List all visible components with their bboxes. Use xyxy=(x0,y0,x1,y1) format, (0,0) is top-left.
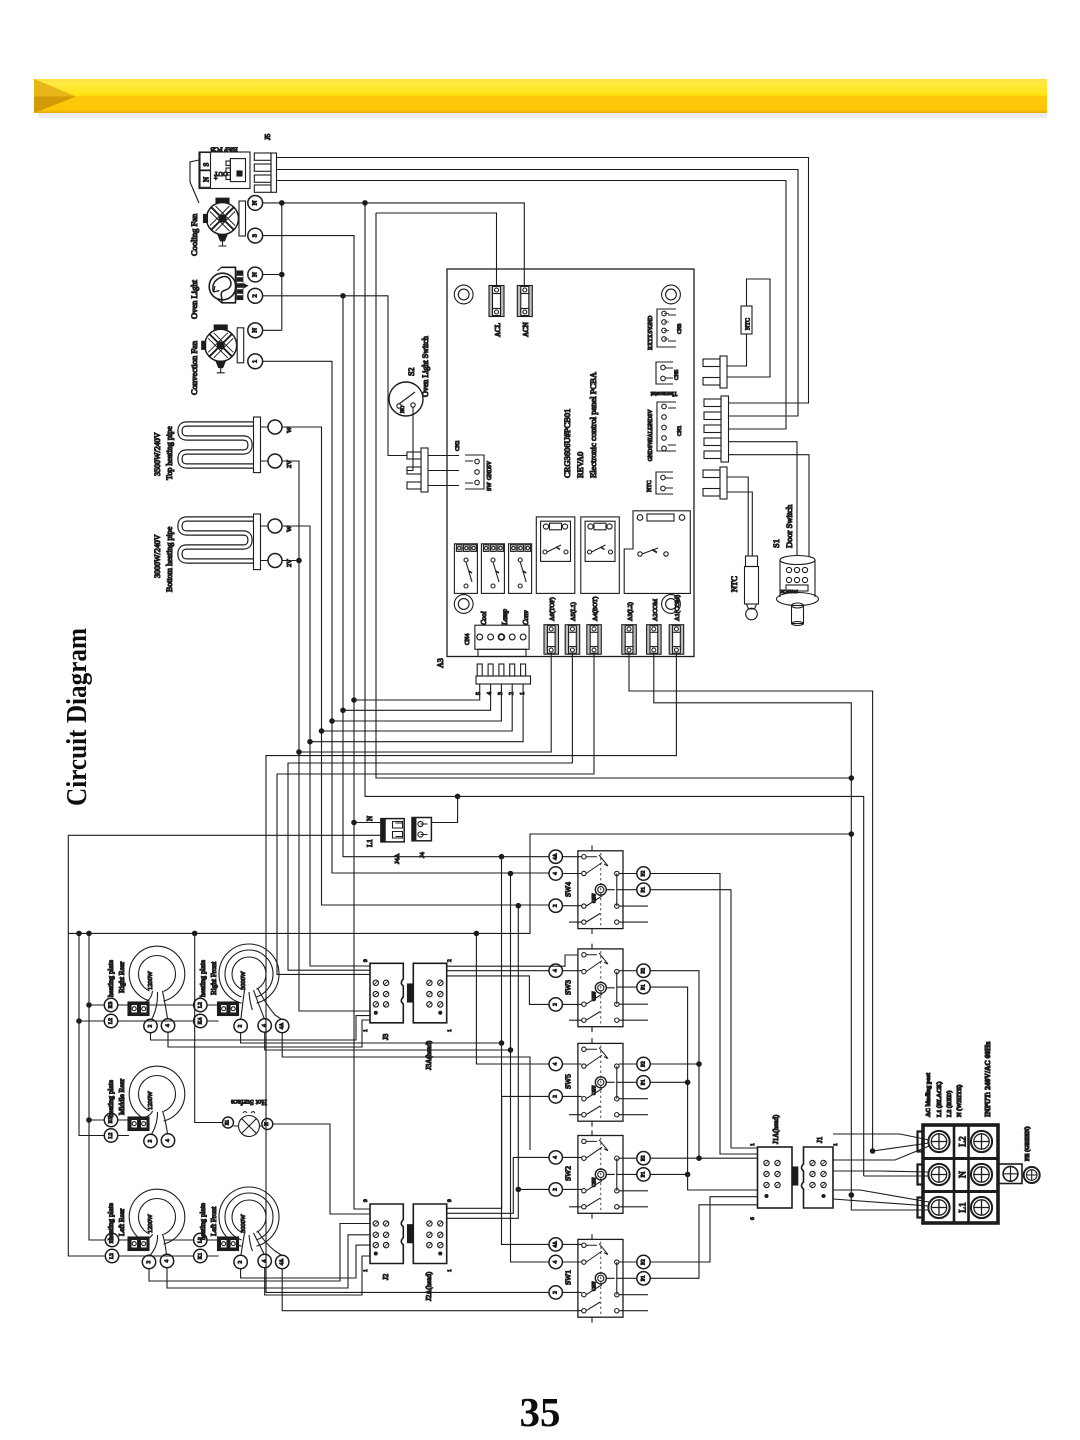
svg-text:N: N xyxy=(252,200,259,205)
svg-text:1200W: 1200W xyxy=(147,970,154,990)
terminal L2 LR xyxy=(105,1249,118,1262)
connector CN2 xyxy=(465,455,484,489)
wire L bus to ACL xyxy=(376,213,497,286)
wires J1 to L2 post xyxy=(833,1134,929,1160)
wire CN1 plug to door switch xyxy=(729,442,798,556)
svg-text:1: 1 xyxy=(252,360,259,363)
svg-text:Oven Light: Oven Light xyxy=(189,279,199,319)
connector CN6 NTC xyxy=(656,472,673,494)
svg-text:P1: P1 xyxy=(641,1275,647,1281)
svg-text:L1 (BLACK): L1 (BLACK) xyxy=(936,1081,943,1117)
svg-text:Left Front: Left Front xyxy=(210,1207,218,1236)
svg-text:P1: P1 xyxy=(641,887,647,893)
svg-text:3: 3 xyxy=(252,234,259,237)
wire LF 2 to J2 xyxy=(241,1245,370,1278)
wire L bus xyxy=(376,213,851,778)
S2 plug xyxy=(407,448,428,492)
switch SW5 xyxy=(569,1038,648,1127)
door switch S1 xyxy=(777,556,819,626)
wire fuse A4 to J3 xyxy=(277,654,594,974)
svg-text:A6(TOP): A6(TOP) xyxy=(549,597,556,621)
junction xyxy=(76,1018,82,1024)
svg-text:ACN: ACN xyxy=(522,322,530,337)
svg-text:J1A(head): J1A(head) xyxy=(772,1114,780,1144)
wire J4 up to bus xyxy=(431,796,457,822)
wire fuse A3 to L2 post xyxy=(629,654,873,1151)
svg-text:9: 9 xyxy=(363,959,369,962)
svg-text:L2: L2 xyxy=(108,1018,114,1024)
wire SW1 P2 to J1A xyxy=(650,1197,757,1262)
wire lamp right to J2 xyxy=(273,1124,370,1214)
svg-text:4: 4 xyxy=(262,1259,268,1262)
wire MR K5 row xyxy=(89,1005,219,1256)
wire RR 2 to J3 xyxy=(151,1016,371,1040)
switch SW3 xyxy=(569,944,648,1033)
CN1 plug xyxy=(704,396,729,462)
relay K6 large xyxy=(624,511,690,594)
wire SW1 stubs xyxy=(562,1244,636,1292)
terminal N (cooling fan) xyxy=(248,196,263,211)
terminal block LF xyxy=(218,1237,239,1251)
connector CN5 thermostat xyxy=(656,362,673,384)
junction xyxy=(192,931,198,937)
wire SW2 stubs xyxy=(562,1157,636,1189)
terminal N lamp xyxy=(262,1119,273,1130)
wire N branch to lights xyxy=(263,203,282,330)
wire SW5 4 feed xyxy=(476,933,549,1064)
terminal 1 (convection fan) xyxy=(248,354,263,369)
wires S2 plug to CN2 xyxy=(428,456,459,486)
junction xyxy=(849,775,855,781)
terminal P2 SW5 xyxy=(637,1057,650,1070)
schematic drawn in portrait coordinates; texts rotated individually xyxy=(68,133,1039,1322)
wire NTC plug to probe xyxy=(727,477,752,556)
junction xyxy=(516,903,522,909)
junction xyxy=(279,272,285,278)
relay K5 medium xyxy=(581,517,620,594)
wire SW3 stubs xyxy=(562,971,636,1005)
junction xyxy=(296,749,302,755)
junction xyxy=(86,1002,92,1008)
svg-text:J3A(head): J3A(head) xyxy=(425,1040,433,1070)
wire SW5 2 to J2A xyxy=(447,1096,549,1208)
NTC thermostat loop xyxy=(727,279,770,377)
terminal 2 SW4 xyxy=(549,899,562,912)
terminal 2 RR xyxy=(144,1019,157,1032)
terminal V (top heater) xyxy=(268,454,282,468)
heating plate Left Front 3000W xyxy=(219,1187,282,1256)
terminal 3 (cooling fan) xyxy=(248,228,263,243)
svg-text:L2 (RED): L2 (RED) xyxy=(946,1091,953,1117)
terminal N (oven light) xyxy=(248,267,263,282)
wire CN4 pin3 to conv bus xyxy=(332,684,501,721)
wire SW5 P1 xyxy=(650,1081,687,1083)
svg-text:S: S xyxy=(203,162,211,166)
junction xyxy=(499,1040,505,1046)
svg-text:1: 1 xyxy=(363,1269,369,1272)
wire SW4 stubs xyxy=(562,857,636,906)
terminal K4 RF xyxy=(194,1014,207,1027)
AC binding post terminal block xyxy=(918,1125,999,1223)
wire K bus xyxy=(89,933,105,1240)
svg-text:K1: K1 xyxy=(197,1252,203,1259)
svg-text:P2: P2 xyxy=(641,1155,647,1161)
svg-text:4: 4 xyxy=(164,1259,170,1262)
connector J2A head xyxy=(408,1204,447,1264)
oven light LP1 xyxy=(209,267,248,303)
wire RF 4 to SW1 4 xyxy=(265,1032,549,1262)
junction xyxy=(351,820,357,826)
wire neutral down to N terminal xyxy=(365,203,864,1176)
svg-text:Hot Surface: Hot Surface xyxy=(230,1098,267,1107)
svg-text:1: 1 xyxy=(447,1029,453,1032)
svg-text:SW2: SW2 xyxy=(564,1166,573,1181)
terminal N (convection fan) xyxy=(248,323,263,338)
svg-text:9: 9 xyxy=(363,1199,369,1202)
svg-text:Door Switch: Door Switch xyxy=(784,504,794,548)
wire SW1 P1 to J1A xyxy=(650,1205,757,1279)
svg-text:1: 1 xyxy=(833,1143,839,1146)
wire top heater W xyxy=(282,427,549,905)
wire SW5 stubs xyxy=(562,1064,636,1096)
terminal 2 LF xyxy=(234,1255,247,1268)
svg-text:PE (GREEN): PE (GREEN) xyxy=(1024,1126,1031,1161)
svg-text:2: 2 xyxy=(447,959,453,962)
hot surface indicator lamp xyxy=(239,1112,260,1137)
svg-text:9: 9 xyxy=(447,1199,453,1202)
connector J4A xyxy=(381,819,404,842)
svg-text:CN1: CN1 xyxy=(677,425,683,436)
terminal P1 SW5 xyxy=(637,1076,650,1089)
svg-text:N: N xyxy=(203,177,211,182)
fuse ACN xyxy=(517,286,532,317)
junction xyxy=(508,1047,514,1053)
connector CN1 xyxy=(657,402,676,451)
fuse A4(BOT) xyxy=(587,625,602,655)
connector J3 xyxy=(370,963,403,1023)
terminal 4A LF xyxy=(276,1255,289,1268)
svg-text:GND: GND xyxy=(648,316,654,329)
wire bus 933 xyxy=(68,834,851,933)
svg-text:J3: J3 xyxy=(382,1033,390,1040)
svg-text:NTC: NTC xyxy=(746,318,752,330)
svg-text:4: 4 xyxy=(553,1062,559,1065)
NTC probe xyxy=(745,556,759,620)
wire SW3 P1 chain xyxy=(650,987,757,1190)
svg-text:A1(COM): A1(COM) xyxy=(674,595,681,621)
wire S2 to plug xyxy=(407,407,413,471)
svg-text:NTC: NTC xyxy=(730,576,739,592)
terminal 4A RF xyxy=(276,1019,289,1032)
svg-text:TX: TX xyxy=(648,333,654,342)
svg-text:J2: J2 xyxy=(382,1273,390,1280)
svg-text:4A: 4A xyxy=(553,1241,559,1248)
svg-text:Conv: Conv xyxy=(522,609,530,625)
terminal block RR xyxy=(128,1002,149,1016)
svg-text:K3: K3 xyxy=(108,1001,114,1008)
svg-text:2: 2 xyxy=(553,1188,559,1191)
svg-text:P1: P1 xyxy=(641,1171,647,1177)
wire fuse A5 to J3 xyxy=(288,654,572,970)
svg-text:5V: 5V xyxy=(487,460,493,468)
wire H&F to fan xyxy=(190,160,199,203)
terminal P2 SW1 xyxy=(637,1255,650,1268)
svg-text:SW5: SW5 xyxy=(564,1074,573,1089)
junction xyxy=(696,1061,702,1067)
terminal L2 xyxy=(104,1014,117,1027)
svg-text:H&F PCB: H&F PCB xyxy=(210,146,238,153)
svg-text:2: 2 xyxy=(238,1024,244,1027)
wire CN4 pin5 to J4A N xyxy=(354,684,480,823)
wire CN4 pin4 to SW4 4A xyxy=(343,684,549,857)
svg-text:2: 2 xyxy=(148,1139,154,1142)
svg-text:4: 4 xyxy=(262,1024,268,1027)
junction xyxy=(76,931,82,937)
svg-text:K4: K4 xyxy=(197,1017,203,1024)
wire LR 2 to J2 xyxy=(149,1224,370,1282)
wire RR L2 row xyxy=(79,1020,194,1022)
wire conv 1 down xyxy=(263,361,549,873)
wire SW4 P1 to J1A xyxy=(650,890,757,1148)
wire J5-3 to CN1 plug xyxy=(277,181,787,430)
junction xyxy=(508,871,514,877)
terminal 4 SW4 xyxy=(549,867,562,880)
wire RR K3 row xyxy=(89,1004,194,1006)
svg-text:OFF: OFF xyxy=(592,893,598,903)
terminal P1 SW2 xyxy=(637,1168,650,1181)
svg-text:4: 4 xyxy=(553,1156,559,1159)
svg-text:6: 6 xyxy=(750,1217,756,1220)
svg-text:L1: L1 xyxy=(959,1202,969,1213)
wire CN4 pin1 to heater bus xyxy=(310,684,523,742)
svg-text:N: N xyxy=(252,272,259,277)
svg-text:P1: P1 xyxy=(641,984,647,990)
terminal K2 xyxy=(105,1233,118,1246)
svg-text:HALL: HALL xyxy=(648,426,654,442)
connector J5 xyxy=(254,133,276,192)
svg-text:E1: E1 xyxy=(226,1119,231,1125)
svg-text:N: N xyxy=(252,328,259,333)
svg-text:P2: P2 xyxy=(641,1259,647,1265)
wire J3A to SW3 4 xyxy=(447,970,549,972)
svg-text:1: 1 xyxy=(750,1143,756,1146)
svg-text:N: N xyxy=(265,1122,270,1126)
terminal 4 SW2 xyxy=(549,1151,562,1164)
svg-text:L2: L2 xyxy=(197,1002,203,1008)
fuse A1(COM) xyxy=(669,625,684,655)
svg-text:A4(BOT): A4(BOT) xyxy=(592,597,599,621)
svg-text:L2: L2 xyxy=(959,1136,969,1147)
svg-text:heating plate: heating plate xyxy=(107,1080,115,1117)
terminal 4A SW1 xyxy=(549,1238,562,1251)
svg-text:Circuit Diagram: Circuit Diagram xyxy=(61,628,93,806)
connector J1 xyxy=(802,1147,834,1208)
wires J1 to L1 post xyxy=(833,1190,929,1210)
wire SW2 P2 xyxy=(650,1157,699,1159)
svg-text:K2: K2 xyxy=(109,1236,115,1243)
fuse A6(TOP) xyxy=(544,625,559,655)
svg-text:RX: RX xyxy=(648,341,654,350)
terminal P1 SW1 xyxy=(637,1272,650,1285)
wire CN1 plug to door switch 2 xyxy=(729,455,810,556)
screw L2 right xyxy=(971,1131,992,1152)
junction xyxy=(319,728,325,734)
terminal 2 SW1 xyxy=(549,1286,562,1299)
svg-text:SW: SW xyxy=(487,482,493,491)
svg-text:P2: P2 xyxy=(641,1061,647,1067)
svg-text:35: 35 xyxy=(520,1389,561,1435)
terminal L2 MR xyxy=(104,1129,117,1142)
relay K2 small xyxy=(481,544,504,594)
svg-text:L2: L2 xyxy=(197,1237,203,1243)
heating plate Middle Rear 1200W xyxy=(129,1066,185,1134)
junction xyxy=(685,1080,691,1086)
junction xyxy=(351,697,357,703)
svg-text:Left Rear: Left Rear xyxy=(118,1208,126,1236)
wire CN4 pin2 to heater bus xyxy=(322,684,513,731)
svg-text:2: 2 xyxy=(146,1260,152,1263)
terminal 2 SW2 xyxy=(549,1183,562,1196)
wire SW5 P2 xyxy=(650,1063,699,1065)
svg-text:5V: 5V xyxy=(648,326,654,334)
wire J5-1 to CN1 plug xyxy=(277,158,809,404)
terminal K3 xyxy=(104,998,117,1011)
convection fan M2 xyxy=(202,325,244,373)
terminal 4 LF xyxy=(258,1254,271,1267)
wire LR L2 row xyxy=(119,1255,194,1257)
svg-text:4: 4 xyxy=(487,692,493,695)
svg-text:Thermostat: Thermostat xyxy=(650,390,677,396)
connector J3A head xyxy=(408,963,447,1023)
svg-text:CN4: CN4 xyxy=(465,634,471,645)
svg-text:2: 2 xyxy=(553,1291,559,1294)
svg-text:3500W/240V: 3500W/240V xyxy=(153,432,162,476)
svg-text:NO: NO xyxy=(401,405,406,413)
svg-text:Middle Rear: Middle Rear xyxy=(118,1078,126,1115)
connector CN4 xyxy=(475,625,529,656)
terminal 4 SW3 xyxy=(549,964,562,977)
wire LR K2 row xyxy=(119,1239,194,1241)
wire riser 501 xyxy=(501,857,503,1043)
svg-text:1200W: 1200W xyxy=(147,1213,154,1233)
wire SW2 2 to J2A xyxy=(447,1189,549,1218)
svg-text:1200W: 1200W xyxy=(147,1090,154,1110)
screw L1 left xyxy=(928,1197,949,1218)
junction xyxy=(296,558,302,564)
junction xyxy=(86,931,92,937)
CN4 mating plug xyxy=(476,664,531,695)
svg-text:A3: A3 xyxy=(436,658,445,668)
mounting hole xyxy=(454,595,473,614)
junction xyxy=(307,739,313,745)
svg-text:4A: 4A xyxy=(279,1259,285,1266)
svg-text:S2: S2 xyxy=(407,368,416,376)
wire RF 2 to SW1 4A xyxy=(241,1033,549,1245)
NTC plug xyxy=(703,467,727,499)
wire SW4 P2 to J1A xyxy=(650,874,757,1155)
svg-text:4A: 4A xyxy=(553,853,559,860)
svg-text:OFF: OFF xyxy=(592,1085,598,1095)
svg-text:4: 4 xyxy=(165,1139,171,1142)
PCB A3 electronic control panel PCBA xyxy=(447,269,694,657)
terminal K5 xyxy=(104,1113,117,1126)
svg-text:OFF: OFF xyxy=(592,1281,598,1291)
mounting hole xyxy=(662,595,681,614)
svg-text:CRG3606U#PCB01: CRG3606U#PCB01 xyxy=(562,409,572,478)
fuse ACL xyxy=(489,286,504,317)
terminal P2 SW3 xyxy=(637,964,650,977)
terminal 2 SW3 xyxy=(549,998,562,1011)
terminal 2 LR xyxy=(142,1255,155,1268)
svg-text:ACL: ACL xyxy=(494,323,502,337)
mounting hole xyxy=(662,285,681,304)
svg-text:4: 4 xyxy=(553,872,559,875)
terminal P2 SW2 xyxy=(637,1152,650,1165)
svg-text:heating plate: heating plate xyxy=(107,960,115,997)
wire RR 4 to J3 xyxy=(168,1020,370,1047)
wire riser 518 xyxy=(517,906,519,1190)
svg-text:P1: P1 xyxy=(641,1079,647,1085)
junction xyxy=(849,831,855,837)
heating plate Left Rear 1200W xyxy=(129,1189,185,1255)
svg-text:3000W/240V: 3000W/240V xyxy=(153,534,162,578)
svg-text:5V: 5V xyxy=(648,409,654,417)
relay K4 medium xyxy=(536,517,575,594)
PE earth tab xyxy=(998,1164,1040,1184)
oven light switch S2 xyxy=(389,382,423,416)
wire bottom heater W xyxy=(282,526,370,966)
heater top 3500W xyxy=(180,417,268,473)
junction xyxy=(849,1192,855,1198)
svg-text:J4A: J4A xyxy=(394,853,401,864)
svg-text:Lamp: Lamp xyxy=(501,609,509,626)
svg-text:P2: P2 xyxy=(641,968,647,974)
junction xyxy=(870,1148,876,1154)
svg-text:2: 2 xyxy=(148,1024,154,1027)
terminal 4 RF xyxy=(258,1019,271,1032)
terminal P1 SW3 xyxy=(637,980,650,993)
svg-text:Oven Light Switch: Oven Light Switch xyxy=(421,336,430,397)
svg-text:4A: 4A xyxy=(279,1023,285,1030)
svg-text:Electronic control panel PCBA: Electronic control panel PCBA xyxy=(588,371,598,478)
svg-text:1: 1 xyxy=(447,1269,453,1272)
junction xyxy=(340,708,346,714)
svg-text:4: 4 xyxy=(553,969,559,972)
svg-text:SW4: SW4 xyxy=(564,882,573,897)
screw L1 right xyxy=(971,1197,992,1218)
terminal L2 LF xyxy=(194,1233,207,1246)
heater bottom 3000W xyxy=(180,514,268,570)
connector J1A head xyxy=(758,1147,798,1208)
svg-text:+ -: + - xyxy=(214,173,220,180)
junction xyxy=(362,200,368,206)
wire light 2 to S2 xyxy=(263,296,407,456)
terminal 4A SW4 xyxy=(549,850,562,863)
junction xyxy=(279,200,285,206)
wire SW3 P2 chain xyxy=(650,971,757,1158)
connector J2 xyxy=(370,1204,403,1264)
svg-text:4: 4 xyxy=(553,1260,559,1263)
svg-text:NTC: NTC xyxy=(647,480,653,492)
svg-text:SW1: SW1 xyxy=(564,1270,573,1285)
wires J1 to N post xyxy=(833,1171,929,1176)
screw N right xyxy=(971,1164,992,1185)
svg-text:2: 2 xyxy=(252,294,259,297)
svg-text:CN2: CN2 xyxy=(455,440,461,451)
heating plate Right Front 3000W xyxy=(219,944,282,1020)
switch SW4 xyxy=(569,846,648,935)
svg-text:A3(L2): A3(L2) xyxy=(627,602,634,621)
